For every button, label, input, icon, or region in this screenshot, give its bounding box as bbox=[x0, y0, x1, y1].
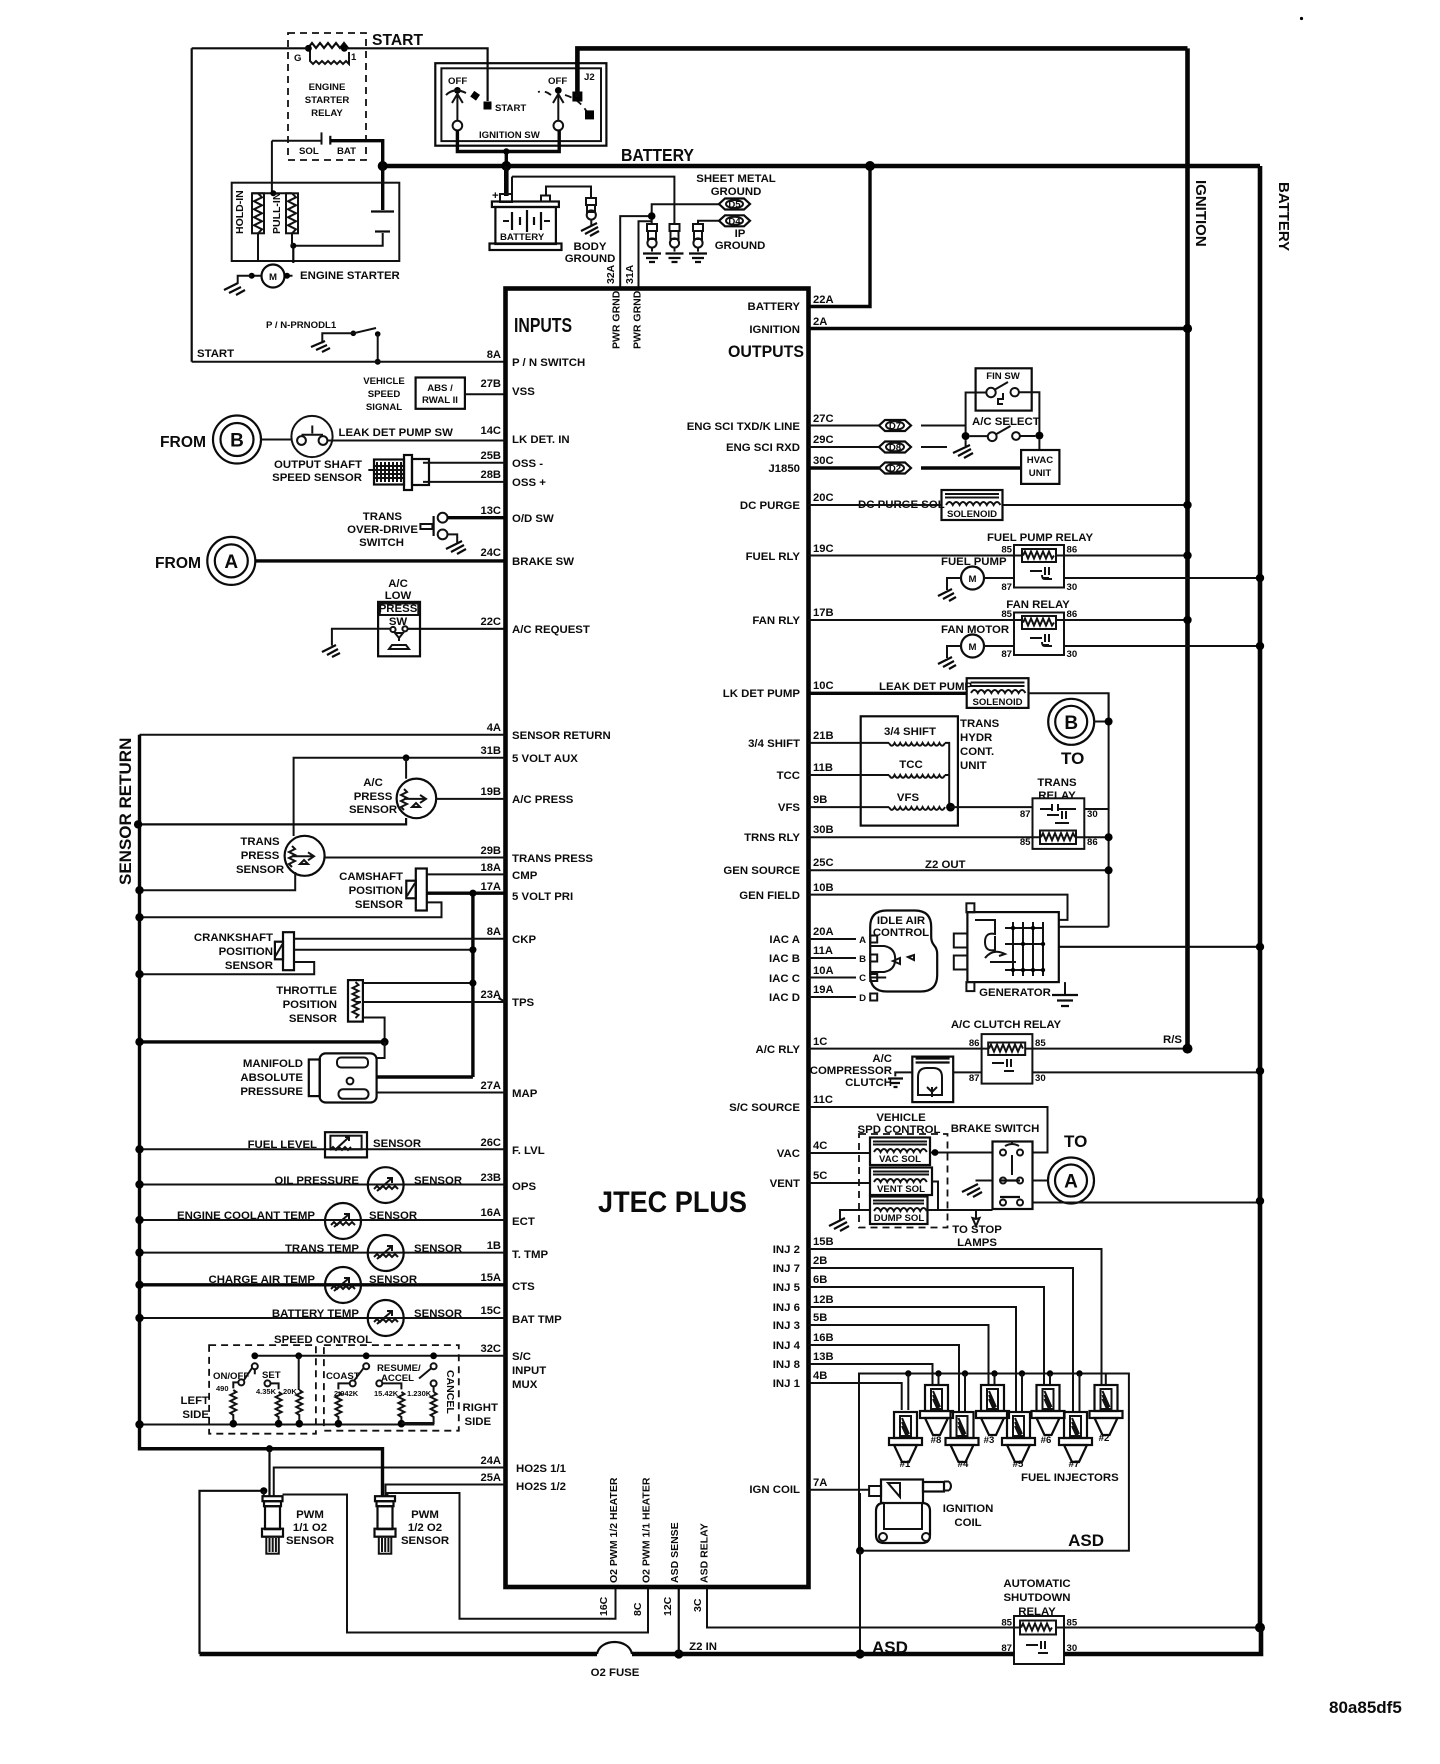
svg-text:5C: 5C bbox=[813, 1170, 827, 1182]
svg-text:VEHICLE: VEHICLE bbox=[876, 1112, 926, 1124]
svg-text:IP: IP bbox=[735, 228, 746, 240]
component ENGINE STARTER box bbox=[232, 183, 400, 261]
svg-text:ASD: ASD bbox=[1068, 1531, 1104, 1550]
svg-text:FUEL INJECTORS: FUEL INJECTORS bbox=[1021, 1472, 1119, 1484]
svg-text:5 VOLT PRI: 5 VOLT PRI bbox=[512, 891, 573, 903]
svg-text:11A: 11A bbox=[813, 945, 833, 957]
svg-text:30: 30 bbox=[1067, 582, 1078, 593]
svg-text:START: START bbox=[495, 103, 526, 114]
switch A/C LOW PRESS SW bbox=[322, 578, 506, 657]
svg-text:CANCEL: CANCEL bbox=[444, 1370, 456, 1414]
svg-text:23A: 23A bbox=[480, 989, 501, 1001]
svg-text:26C: 26C bbox=[480, 1137, 501, 1149]
component PWM 1/2 O2 SENSOR bbox=[375, 1496, 450, 1554]
svg-text:1C: 1C bbox=[813, 1036, 827, 1048]
svg-text:1.230K: 1.230K bbox=[407, 1389, 432, 1398]
svg-text:17A: 17A bbox=[480, 881, 501, 893]
svg-text:CKP: CKP bbox=[512, 934, 536, 946]
svg-text:SENSOR: SENSOR bbox=[373, 1138, 421, 1150]
svg-text:J2: J2 bbox=[584, 72, 595, 83]
svg-text:25A: 25A bbox=[480, 1472, 501, 1484]
relay FUEL PUMP RELAY bbox=[809, 532, 1192, 593]
svg-text:JTEC PLUS: JTEC PLUS bbox=[598, 1186, 747, 1219]
svg-text:SOL: SOL bbox=[299, 146, 319, 157]
svg-text:27C: 27C bbox=[813, 413, 834, 425]
wire INJ3 bbox=[809, 1325, 989, 1385]
svg-text:LEFT: LEFT bbox=[181, 1395, 210, 1407]
pin stub 32A bbox=[605, 216, 652, 286]
sensor MANIFOLD ABSOLUTE PRESSURE bbox=[240, 1053, 505, 1102]
svg-text:24A: 24A bbox=[480, 1455, 501, 1467]
wire fin sw left leg bbox=[966, 393, 987, 437]
svg-text:SENSOR: SENSOR bbox=[369, 1274, 417, 1286]
motor FAN MOTOR bbox=[938, 624, 1264, 669]
svg-text:F. LVL: F. LVL bbox=[512, 1145, 545, 1157]
wire 2A ignition feed bbox=[809, 327, 1188, 330]
svg-text:ACCEL: ACCEL bbox=[381, 1373, 414, 1384]
svg-text:INJ 1: INJ 1 bbox=[773, 1378, 801, 1390]
svg-text:ENG SCI RXD: ENG SCI RXD bbox=[726, 442, 800, 454]
svg-text:20C: 20C bbox=[813, 492, 834, 504]
svg-text:10C: 10C bbox=[813, 680, 834, 692]
oval D8 bbox=[879, 442, 911, 454]
sensor A/C PRESS bbox=[349, 777, 506, 818]
svg-text:25C: 25C bbox=[813, 857, 834, 869]
wire INJ6 bbox=[809, 1307, 1017, 1412]
wire 30C J1850 bbox=[809, 466, 1022, 469]
switch IGNITION SW box bbox=[435, 63, 606, 146]
svg-text:FIN SW: FIN SW bbox=[986, 371, 1021, 382]
switch left pole bbox=[446, 87, 492, 130]
svg-text:HVAC: HVAC bbox=[1027, 455, 1054, 466]
svg-text:#6: #6 bbox=[1041, 1435, 1052, 1446]
wire BATTERY feed line bbox=[383, 164, 1260, 169]
svg-text:#8: #8 bbox=[931, 1435, 942, 1446]
component IGNITION COIL bbox=[860, 1480, 993, 1551]
switch LEAK DET PUMP SW bbox=[261, 416, 506, 457]
svg-text:SPEED CONTROL: SPEED CONTROL bbox=[274, 1334, 372, 1346]
wire 10B gen field bbox=[809, 895, 1068, 920]
svg-text:S/C: S/C bbox=[512, 1351, 531, 1363]
svg-text:13C: 13C bbox=[480, 505, 501, 517]
svg-text:10A: 10A bbox=[813, 965, 834, 977]
svg-text:32C: 32C bbox=[480, 1343, 501, 1355]
wire START coil feed bbox=[192, 48, 488, 101]
svg-text:IGNITION: IGNITION bbox=[749, 324, 800, 336]
svg-text:PWM: PWM bbox=[411, 1509, 439, 1521]
svg-text:T. TMP: T. TMP bbox=[512, 1249, 548, 1261]
svg-text:C: C bbox=[859, 973, 866, 984]
wire 16C heater path bbox=[388, 1493, 616, 1619]
svg-text:ECT: ECT bbox=[512, 1216, 535, 1228]
PCM JTEC PLUS box bbox=[506, 289, 809, 1588]
svg-text:OSS +: OSS + bbox=[512, 477, 546, 489]
wire sensor return TPS branch bbox=[140, 1040, 385, 1043]
bus BATTERY vertical bbox=[1258, 166, 1263, 1628]
svg-text:85: 85 bbox=[1001, 609, 1012, 620]
svg-text:TRNS RLY: TRNS RLY bbox=[744, 832, 800, 844]
wire A/C press return bbox=[138, 818, 406, 824]
svg-text:VENT SOL: VENT SOL bbox=[877, 1184, 925, 1195]
switch ON/OFF branch bbox=[213, 1363, 258, 1427]
wire Z2 OUT 25C bbox=[809, 859, 1113, 874]
svg-text:4B: 4B bbox=[813, 1370, 827, 1382]
svg-text:SWITCH: SWITCH bbox=[359, 537, 404, 549]
svg-text:SIDE: SIDE bbox=[465, 1416, 492, 1428]
svg-text:15.42K: 15.42K bbox=[374, 1389, 399, 1398]
svg-text:MAP: MAP bbox=[512, 1088, 538, 1100]
svg-text:PRESS: PRESS bbox=[241, 850, 280, 862]
svg-text:16C: 16C bbox=[598, 1596, 610, 1616]
connector IDLE AIR CONTROL bbox=[859, 911, 937, 1005]
arrow TO STOP LAMPS bbox=[952, 1209, 1002, 1249]
svg-text:O2 PWM 1/2 HEATER: O2 PWM 1/2 HEATER bbox=[608, 1477, 620, 1583]
solenoid DC PURGE SOL bbox=[809, 490, 1192, 520]
svg-text:30: 30 bbox=[1067, 649, 1078, 660]
svg-text:7A: 7A bbox=[813, 1477, 827, 1489]
svg-text:MANIFOLD: MANIFOLD bbox=[243, 1058, 303, 1070]
svg-text:SOLENOID: SOLENOID bbox=[947, 509, 997, 520]
oval D7 bbox=[879, 420, 911, 432]
svg-text:Z2 IN: Z2 IN bbox=[689, 1641, 717, 1653]
relay box ENGINE STARTER RELAY bbox=[288, 33, 366, 160]
svg-text:SOLENOID: SOLENOID bbox=[972, 697, 1022, 708]
wire 30B to trans relay coil bbox=[809, 836, 1109, 838]
svg-text:SIDE: SIDE bbox=[182, 1409, 209, 1421]
svg-text:A/C REQUEST: A/C REQUEST bbox=[512, 624, 590, 636]
svg-text:SENSOR: SENSOR bbox=[236, 864, 284, 876]
wire ignition switch feed thick top bbox=[577, 48, 1187, 97]
svg-text:ABSOLUTE: ABSOLUTE bbox=[240, 1072, 303, 1084]
svg-text:6B: 6B bbox=[813, 1274, 827, 1286]
svg-text:UNIT: UNIT bbox=[960, 760, 987, 772]
svg-text:D7: D7 bbox=[889, 421, 901, 432]
svg-text:#2: #2 bbox=[1099, 1433, 1110, 1444]
ground A/C select bbox=[953, 440, 973, 458]
switch A/C SELECT bbox=[962, 426, 1044, 441]
svg-text:LK DET PUMP: LK DET PUMP bbox=[723, 688, 801, 700]
svg-text:POSITION: POSITION bbox=[349, 885, 403, 897]
wire V1 vertical node bbox=[1108, 693, 1110, 926]
bus SENSOR RETURN vertical bbox=[138, 735, 141, 1425]
svg-text:ENGINE: ENGINE bbox=[309, 82, 346, 93]
svg-text:OUTPUTS: OUTPUTS bbox=[728, 343, 804, 361]
svg-text:SET: SET bbox=[262, 1370, 281, 1381]
svg-text:TRANS PRESS: TRANS PRESS bbox=[512, 853, 593, 865]
coil TCC bbox=[809, 759, 950, 778]
switch RESUME/ACCEL branch bbox=[374, 1363, 421, 1427]
svg-text:RIGHT: RIGHT bbox=[463, 1402, 498, 1414]
svg-text:BATTERY: BATTERY bbox=[621, 145, 694, 165]
svg-text:BAT TMP: BAT TMP bbox=[512, 1314, 562, 1326]
svg-text:TCC: TCC bbox=[777, 770, 800, 782]
svg-text:FUEL PUMP RELAY: FUEL PUMP RELAY bbox=[987, 532, 1094, 544]
injector #1 bbox=[889, 1412, 922, 1470]
wire generator to V1 bbox=[1059, 926, 1109, 928]
svg-text:4A: 4A bbox=[487, 722, 501, 734]
sensor CAMSHAFT POSITION bbox=[135, 869, 505, 922]
clutch A/C COMPRESSOR CLUTCH bbox=[810, 1053, 982, 1102]
wire relay to ignition bus R/S bbox=[1025, 1034, 1192, 1054]
svg-text:RELAY: RELAY bbox=[1038, 790, 1076, 802]
svg-text:19C: 19C bbox=[813, 543, 834, 555]
svg-text:86: 86 bbox=[1067, 609, 1078, 620]
svg-text:IGNITION: IGNITION bbox=[1192, 180, 1209, 247]
sensor BATTERY TEMP bbox=[135, 1300, 505, 1336]
wire ASD feed to O2 sensor 1 bbox=[200, 1491, 264, 1654]
svg-text:VFS: VFS bbox=[778, 802, 801, 814]
wire 11C s/c source bbox=[809, 1107, 1048, 1153]
relay A/C CLUTCH RELAY bbox=[951, 1019, 1062, 1084]
svg-text:BRAKE SWITCH: BRAKE SWITCH bbox=[951, 1123, 1040, 1135]
sensor CHARGE AIR TEMP bbox=[135, 1267, 505, 1303]
svg-text:AUTOMATIC: AUTOMATIC bbox=[1003, 1578, 1070, 1590]
svg-text:GENERATOR: GENERATOR bbox=[979, 987, 1051, 999]
box speed control right bbox=[324, 1345, 459, 1431]
component GENERATOR bbox=[954, 903, 1059, 999]
svg-text:VAC SOL: VAC SOL bbox=[879, 1154, 921, 1165]
svg-text:19A: 19A bbox=[813, 984, 834, 996]
svg-text:IAC A: IAC A bbox=[769, 934, 800, 946]
svg-text:O2 FUSE: O2 FUSE bbox=[591, 1667, 640, 1679]
connector ground 3 bbox=[689, 224, 707, 262]
ground generator bbox=[1052, 982, 1078, 1006]
svg-text:M: M bbox=[269, 272, 277, 283]
svg-text:A/C: A/C bbox=[363, 777, 383, 789]
wire START to P/N switch pin 8A bbox=[192, 361, 506, 363]
svg-text:87: 87 bbox=[969, 1073, 980, 1084]
wire ASD relay coil to battery bus bbox=[1056, 1627, 1260, 1629]
wire 4A sensor return bbox=[140, 734, 506, 736]
svg-text:IAC D: IAC D bbox=[769, 992, 800, 1004]
node sheet metal ground junction bbox=[648, 204, 720, 224]
svg-text:RWAL II: RWAL II bbox=[422, 395, 458, 406]
svg-text:18A: 18A bbox=[480, 862, 501, 874]
svg-text:TO: TO bbox=[1061, 749, 1084, 768]
box TRANS HYDR CONT UNIT bbox=[861, 716, 1000, 825]
svg-text:THROTTLE: THROTTLE bbox=[276, 985, 337, 997]
svg-text:SHEET METAL: SHEET METAL bbox=[696, 173, 776, 185]
sensor FUEL LEVEL bbox=[135, 1132, 505, 1157]
svg-text:24C: 24C bbox=[480, 547, 501, 559]
svg-text:INJ 5: INJ 5 bbox=[773, 1282, 801, 1294]
svg-text:SENSOR: SENSOR bbox=[355, 899, 403, 911]
svg-text:31B: 31B bbox=[480, 745, 501, 757]
svg-text:PRESS: PRESS bbox=[354, 791, 393, 803]
wire 29C eng sci rxd bbox=[809, 446, 948, 448]
ground brake switch bbox=[962, 1181, 993, 1198]
svg-text:O/D SW: O/D SW bbox=[512, 513, 554, 525]
solenoid VENT SOL bbox=[809, 1168, 939, 1211]
wire 27C eng sci txd bbox=[809, 425, 966, 427]
svg-text:A: A bbox=[1064, 1172, 1078, 1193]
svg-text:STARTER: STARTER bbox=[305, 95, 350, 106]
sensor OUTPUT SHAFT SPEED bbox=[272, 455, 505, 490]
svg-text:RELAY: RELAY bbox=[311, 108, 343, 119]
wire generator output to battery bus bbox=[1059, 946, 1260, 948]
svg-text:FUEL RLY: FUEL RLY bbox=[746, 551, 801, 563]
svg-text:15A: 15A bbox=[480, 1272, 501, 1284]
node FROM A circle bbox=[155, 537, 506, 585]
svg-text:#1: #1 bbox=[900, 1459, 911, 1470]
svg-text:VEHICLE: VEHICLE bbox=[363, 376, 405, 387]
svg-text:BATTERY: BATTERY bbox=[500, 232, 545, 243]
wire sensor return to O2 sensors bbox=[140, 1425, 383, 1497]
svg-text:IGNITION: IGNITION bbox=[943, 1503, 994, 1515]
injector #2 bbox=[1090, 1385, 1123, 1444]
svg-text:B: B bbox=[859, 954, 866, 965]
svg-text:86: 86 bbox=[1067, 545, 1078, 556]
svg-text:FUEL LEVEL: FUEL LEVEL bbox=[248, 1139, 317, 1151]
svg-text:BATTERY: BATTERY bbox=[747, 301, 800, 313]
svg-text:SENSOR RETURN: SENSOR RETURN bbox=[512, 730, 611, 742]
svg-text:1B: 1B bbox=[487, 1240, 501, 1252]
svg-text:LEAK DET PUMP SW: LEAK DET PUMP SW bbox=[339, 427, 454, 439]
svg-text:29B: 29B bbox=[480, 845, 501, 857]
svg-text:87: 87 bbox=[1001, 649, 1012, 660]
injector #4 bbox=[946, 1412, 979, 1470]
svg-text:30C: 30C bbox=[813, 455, 834, 467]
svg-text:HYDR: HYDR bbox=[960, 732, 992, 744]
box VEHICLE SPD CONTROL bbox=[858, 1112, 948, 1228]
switch FIN SW box bbox=[976, 368, 1032, 410]
svg-text:TPS: TPS bbox=[512, 997, 535, 1009]
svg-text:8A: 8A bbox=[487, 349, 501, 361]
switch COAST branch bbox=[326, 1363, 369, 1427]
svg-text:5 VOLT AUX: 5 VOLT AUX bbox=[512, 753, 578, 765]
svg-text:86: 86 bbox=[969, 1038, 980, 1049]
svg-text:A/C SELECT: A/C SELECT bbox=[972, 416, 1040, 428]
svg-text:19B: 19B bbox=[480, 786, 501, 798]
component PWM 1/1 O2 SENSOR bbox=[262, 1496, 334, 1554]
svg-text:IGNITION SW: IGNITION SW bbox=[479, 130, 541, 141]
svg-text:OUTPUT SHAFT: OUTPUT SHAFT bbox=[274, 459, 362, 471]
oval D2 bbox=[879, 463, 911, 475]
rail 5 volt pri bbox=[471, 893, 474, 1077]
injector #6 bbox=[1032, 1385, 1065, 1446]
svg-text:TRANS: TRANS bbox=[960, 718, 1000, 730]
connector ground 2 bbox=[666, 224, 684, 262]
svg-text:ENGINE STARTER: ENGINE STARTER bbox=[300, 270, 400, 282]
svg-text:CONTROL: CONTROL bbox=[873, 927, 929, 939]
svg-text:SENSOR: SENSOR bbox=[289, 1013, 337, 1025]
coil HOLD-IN bbox=[234, 190, 264, 234]
svg-text:SENSOR: SENSOR bbox=[286, 1535, 334, 1547]
svg-text:86: 86 bbox=[1087, 837, 1098, 848]
svg-text:HO2S 1/2: HO2S 1/2 bbox=[516, 1481, 566, 1493]
bottom rotated pin labels inside bbox=[608, 1477, 711, 1583]
relay AUTOMATIC SHUTDOWN RELAY bbox=[1001, 1578, 1078, 1664]
svg-text:VENT: VENT bbox=[770, 1178, 800, 1190]
starter solenoid contact plates bbox=[290, 166, 394, 249]
wire 25A to O2 sensor 2 bbox=[386, 1485, 506, 1497]
svg-text:OFF: OFF bbox=[548, 76, 567, 87]
svg-text:D4: D4 bbox=[728, 216, 741, 227]
sensor CRANKSHAFT POSITION bbox=[135, 932, 505, 978]
svg-text:1/2 O2: 1/2 O2 bbox=[408, 1522, 442, 1534]
svg-text:INJ 6: INJ 6 bbox=[773, 1302, 800, 1314]
svg-text:DUMP SOL: DUMP SOL bbox=[874, 1213, 925, 1224]
svg-text:LK DET. IN: LK DET. IN bbox=[512, 434, 570, 446]
svg-text:LOW: LOW bbox=[385, 590, 412, 602]
svg-text:15C: 15C bbox=[480, 1305, 501, 1317]
svg-text:21B: 21B bbox=[813, 730, 834, 742]
svg-text:INPUT: INPUT bbox=[512, 1365, 546, 1377]
svg-text:IDLE AIR: IDLE AIR bbox=[877, 915, 925, 927]
svg-text:15B: 15B bbox=[813, 1236, 834, 1248]
svg-text:R/S: R/S bbox=[1163, 1034, 1182, 1046]
svg-text:80a85df5: 80a85df5 bbox=[1329, 1698, 1402, 1717]
svg-text:ASD: ASD bbox=[872, 1638, 908, 1657]
svg-text:14C: 14C bbox=[480, 425, 501, 437]
svg-text:INJ 8: INJ 8 bbox=[773, 1359, 800, 1371]
switch TRANS OVER-DRIVE bbox=[347, 511, 505, 554]
sensor OIL PRESSURE bbox=[135, 1167, 505, 1203]
svg-text:1: 1 bbox=[351, 52, 357, 63]
svg-text:START: START bbox=[372, 32, 423, 49]
motor FUEL PUMP bbox=[938, 556, 1264, 601]
wire switch commons to battery line bbox=[457, 130, 559, 152]
svg-text:P / N SWITCH: P / N SWITCH bbox=[512, 357, 585, 369]
wire INJ8 bbox=[809, 1364, 933, 1385]
wire INJ2 bbox=[809, 1249, 1102, 1385]
svg-text:CONT.: CONT. bbox=[960, 746, 994, 758]
component battery body bbox=[490, 196, 562, 251]
relay FAN RELAY bbox=[809, 599, 1192, 660]
svg-text:30B: 30B bbox=[813, 824, 834, 836]
sensor ENGINE COOLANT TEMP bbox=[135, 1203, 505, 1239]
svg-text:9B: 9B bbox=[813, 794, 827, 806]
wire IAC D bbox=[809, 996, 857, 998]
wire 7A ign coil bbox=[809, 1489, 870, 1491]
svg-text:PRESSURE: PRESSURE bbox=[240, 1086, 303, 1098]
svg-text:OVER-DRIVE: OVER-DRIVE bbox=[347, 524, 418, 536]
svg-text:FROM: FROM bbox=[155, 555, 201, 572]
bus IGNITION vertical bbox=[1185, 48, 1190, 1048]
switch BRAKE SWITCH bbox=[951, 1123, 1040, 1209]
svg-text:POSITION: POSITION bbox=[219, 946, 273, 958]
wire 1C to relay bbox=[809, 1048, 989, 1050]
sensor THROTTLE POSITION bbox=[276, 979, 505, 1042]
svg-text:OPS: OPS bbox=[512, 1181, 536, 1193]
svg-text:BAT: BAT bbox=[337, 146, 356, 157]
svg-text:#7: #7 bbox=[1069, 1459, 1080, 1470]
svg-text:#3: #3 bbox=[984, 1435, 995, 1446]
bottom pin numbers outside bbox=[598, 1596, 704, 1616]
svg-text:16A: 16A bbox=[480, 1207, 501, 1219]
sensor TRANS PRESS bbox=[135, 836, 505, 895]
resistor 20K branch bbox=[283, 1356, 303, 1428]
node 12C junction bbox=[674, 1649, 683, 1658]
svg-text:SENSOR: SENSOR bbox=[414, 1243, 462, 1255]
svg-text:GROUND: GROUND bbox=[715, 240, 766, 252]
svg-text:11C: 11C bbox=[813, 1094, 833, 1106]
svg-text:ASD SENSE: ASD SENSE bbox=[669, 1522, 681, 1583]
right pin labels bbox=[687, 294, 834, 1496]
relay contact SOL-BAT bbox=[272, 132, 383, 166]
svg-text:VSS: VSS bbox=[512, 386, 535, 398]
svg-text:2A: 2A bbox=[813, 316, 827, 328]
svg-text:O2 PWM 1/1 HEATER: O2 PWM 1/1 HEATER bbox=[641, 1477, 653, 1583]
svg-text:27B: 27B bbox=[480, 378, 501, 390]
svg-text:+: + bbox=[492, 190, 499, 202]
svg-text:HOLD-IN: HOLD-IN bbox=[234, 190, 246, 234]
wire IAC C bbox=[809, 977, 887, 979]
svg-text:CHARGE AIR TEMP: CHARGE AIR TEMP bbox=[208, 1274, 315, 1286]
svg-text:5B: 5B bbox=[813, 1312, 827, 1324]
svg-text:32A: 32A bbox=[605, 264, 617, 284]
wire to sheet metal ground connectors bbox=[512, 177, 674, 224]
